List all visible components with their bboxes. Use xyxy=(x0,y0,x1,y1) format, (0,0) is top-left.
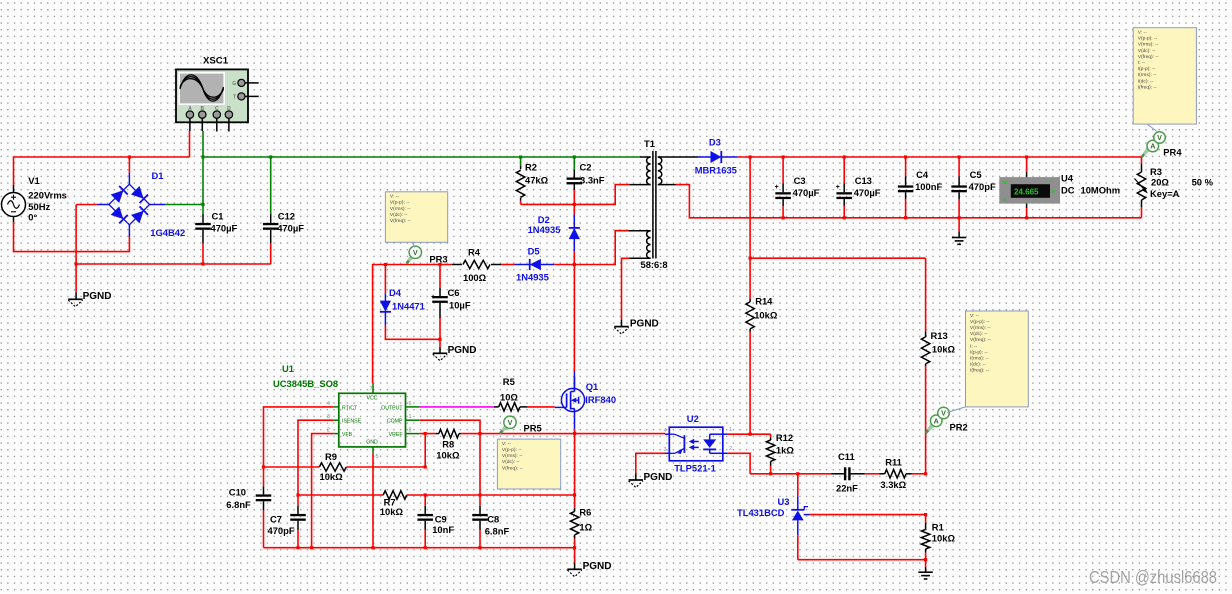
svg-text:PGND: PGND xyxy=(644,472,673,483)
svg-text:3.3nF: 3.3nF xyxy=(580,175,605,186)
wire left ground bus xyxy=(76,263,271,265)
wire R13 bottom to divider xyxy=(925,366,927,474)
svg-text:100Ω: 100Ω xyxy=(463,272,487,283)
wire R7 rail left xyxy=(298,494,383,496)
svg-text:V(p-p): --: V(p-p): -- xyxy=(502,447,522,453)
svg-text:V: V xyxy=(1157,133,1162,142)
svg-text:OUTPUT: OUTPUT xyxy=(381,405,403,411)
svg-text:10kΩ: 10kΩ xyxy=(754,310,778,321)
svg-text:PR2: PR2 xyxy=(950,422,968,433)
resistor R1 xyxy=(921,515,955,553)
svg-text:6.8nF: 6.8nF xyxy=(485,526,510,537)
ground PGND at T1 xyxy=(614,326,628,328)
wire C2 bottom xyxy=(573,190,575,204)
svg-text:v: v xyxy=(1051,189,1055,196)
svg-text:C8: C8 xyxy=(487,513,499,524)
svg-text:+: + xyxy=(775,184,779,191)
svg-text:10kΩ: 10kΩ xyxy=(380,506,404,517)
wire aux bottom to PGND xyxy=(622,258,630,319)
svg-text:V(rms): --: V(rms): -- xyxy=(970,325,991,331)
junction drain node xyxy=(573,263,576,266)
wire R6 bottom xyxy=(574,539,576,563)
svg-text:22nF: 22nF xyxy=(836,482,858,493)
svg-text:C2: C2 xyxy=(580,162,592,173)
svg-text:1N4935: 1N4935 xyxy=(528,224,561,235)
junction green bus at C12 xyxy=(269,155,272,158)
wire C9 bottom xyxy=(424,530,426,548)
svg-text:3.3kΩ: 3.3kΩ xyxy=(880,479,906,490)
svg-text:4: 4 xyxy=(327,401,330,407)
wire C13 bottom xyxy=(843,206,845,218)
svg-text:V: V xyxy=(413,248,418,257)
svg-text:V(rms): --: V(rms): -- xyxy=(502,453,523,459)
wire primary return xyxy=(574,185,629,205)
measurement box PR4 xyxy=(1133,28,1196,124)
wire V1 top to bus xyxy=(14,157,190,185)
svg-text:I(freq): --: I(freq): -- xyxy=(1138,84,1157,90)
wire U3 anode xyxy=(797,535,799,560)
svg-text:10µF: 10µF xyxy=(449,300,471,311)
svg-text:10Ω: 10Ω xyxy=(500,391,518,402)
measurement box PR5 xyxy=(497,439,560,489)
svg-text:20Ω: 20Ω xyxy=(1151,177,1169,188)
wire R7 rail right xyxy=(407,494,575,496)
probe PR3 xyxy=(406,246,448,264)
wire C5 node to earth xyxy=(958,218,960,232)
wire pin2 VFB xyxy=(312,434,334,548)
junction VCC rail at C6 xyxy=(438,263,441,266)
svg-text:D1: D1 xyxy=(152,170,164,181)
junction bottom bus xyxy=(310,546,313,549)
wire pin8 VREF xyxy=(420,433,436,435)
svg-text:U4: U4 xyxy=(1061,173,1074,184)
wire R9 rail right xyxy=(346,466,425,468)
wire U2 pin3 to PGND xyxy=(636,453,665,473)
junction C2 node xyxy=(573,203,576,206)
svg-text:V(rms): --: V(rms): -- xyxy=(390,206,411,212)
wire drain xyxy=(573,265,575,372)
svg-text:V(freq): --: V(freq): -- xyxy=(502,465,523,471)
transformer T1 xyxy=(628,138,678,270)
svg-text:R5: R5 xyxy=(503,376,515,387)
svg-text:1Ω: 1Ω xyxy=(579,522,592,533)
bridge rectifier D1 xyxy=(97,170,185,238)
svg-text:R8: R8 xyxy=(442,438,454,449)
wire C12 bottom xyxy=(270,244,272,264)
junction output ground bus xyxy=(843,216,846,219)
svg-text:V(freq): --: V(freq): -- xyxy=(390,218,411,224)
junction output ground bus xyxy=(782,216,785,219)
junction R9 left xyxy=(262,465,265,468)
capacitor C4 xyxy=(898,157,943,199)
svg-text:V: V xyxy=(508,418,513,427)
wire V1 bottom to bridge bottom xyxy=(14,222,130,252)
AC source V1 xyxy=(2,175,67,223)
junction output bus xyxy=(782,155,785,158)
svg-text:PGND: PGND xyxy=(630,318,659,329)
capacitor C9 xyxy=(417,495,454,535)
svg-text:C12: C12 xyxy=(278,211,295,222)
wire anode rail xyxy=(798,559,926,561)
junction bottom bus xyxy=(478,546,481,549)
svg-text:24.665: 24.665 xyxy=(1014,188,1039,197)
shunt regulator U3 TL431BCD xyxy=(737,474,810,535)
junction output ground bus xyxy=(1025,216,1028,219)
svg-text:V: --: V: -- xyxy=(390,194,399,200)
junction green vertical at bridge line xyxy=(201,203,204,206)
capacitor C8 xyxy=(472,495,509,537)
junction output ground bus xyxy=(904,216,907,219)
svg-text:58:6:8: 58:6:8 xyxy=(641,259,668,270)
svg-text:1N4471: 1N4471 xyxy=(392,301,425,312)
wire C12 drop xyxy=(270,157,272,214)
svg-text:COMP: COMP xyxy=(387,419,403,425)
wire bridge left to PGND xyxy=(76,204,97,206)
capacitor C13 xyxy=(836,157,881,206)
svg-text:DC: DC xyxy=(1061,184,1075,195)
wire C7 bottom xyxy=(297,530,299,548)
junction anode rail xyxy=(924,558,927,561)
svg-text:V: --: V: -- xyxy=(502,441,511,447)
svg-text:D5: D5 xyxy=(528,246,540,257)
svg-text:1kΩ: 1kΩ xyxy=(776,444,794,455)
svg-text:XSC1: XSC1 xyxy=(203,56,229,67)
wire C3 bottom xyxy=(782,206,784,218)
svg-text:TL431BCD: TL431BCD xyxy=(737,507,785,518)
junction output bus xyxy=(749,155,752,158)
capacitor C1 xyxy=(195,211,237,244)
junction PR2 column at feedback xyxy=(924,472,927,475)
junction COMP at VREF line xyxy=(478,432,481,435)
svg-text:C10: C10 xyxy=(229,487,246,498)
capacitor C6 xyxy=(431,265,471,319)
IC U1 UC3845B xyxy=(273,363,420,460)
svg-text:6.8nF: 6.8nF xyxy=(226,499,251,510)
junction left bus at C1 xyxy=(201,262,204,265)
multimeter U4 xyxy=(999,157,1120,208)
diode D5 xyxy=(515,246,555,283)
wire pin1 node to R12 xyxy=(750,433,771,435)
wire R9 rail left xyxy=(264,466,320,468)
svg-text:C5: C5 xyxy=(970,169,982,180)
junction R7 at C9 xyxy=(424,493,427,496)
svg-text:V(rms): --: V(rms): -- xyxy=(1138,42,1159,48)
svg-text:I: --: I: -- xyxy=(1138,60,1146,66)
svg-text:10kΩ: 10kΩ xyxy=(932,344,956,355)
ground PGND at R6 xyxy=(567,568,581,570)
junction R14 node xyxy=(749,257,752,260)
svg-text:7: 7 xyxy=(370,386,373,392)
wire bridge right to C1 node xyxy=(165,204,203,206)
svg-text:470pF: 470pF xyxy=(268,525,295,536)
svg-text:C6: C6 xyxy=(448,287,460,298)
junction bottom bus xyxy=(424,546,427,549)
svg-text:V(p-p): --: V(p-p): -- xyxy=(1138,36,1158,42)
capacitor C2 xyxy=(567,157,605,190)
svg-text:R2: R2 xyxy=(525,162,537,173)
junction source node xyxy=(573,493,576,496)
capacitor C10 xyxy=(226,467,271,510)
potentiometer R3 xyxy=(1135,157,1214,207)
wire pin4 RT/CT xyxy=(264,407,334,467)
svg-text:C3: C3 xyxy=(794,175,806,186)
wire R12 bottom xyxy=(770,466,772,474)
wire output bus xyxy=(738,156,1142,158)
svg-text:470µF: 470µF xyxy=(211,223,238,234)
wire D2 bottom xyxy=(573,251,575,265)
wire drain node to aux top xyxy=(574,231,628,265)
svg-text:Key=A: Key=A xyxy=(1150,188,1180,199)
resistor R7 xyxy=(380,491,407,517)
svg-text:0°: 0° xyxy=(28,212,37,223)
svg-text:R3: R3 xyxy=(1150,166,1162,177)
svg-text:I(dc): --: I(dc): -- xyxy=(1138,78,1154,84)
resistor R5 xyxy=(494,376,527,411)
svg-text:VREF: VREF xyxy=(389,432,403,438)
wire VREF to R9 drop xyxy=(424,434,426,467)
svg-text:U1: U1 xyxy=(282,363,294,374)
svg-text:V(freq): --: V(freq): -- xyxy=(970,337,991,343)
svg-text:PR4: PR4 xyxy=(1163,146,1182,157)
probe PR4 xyxy=(1141,132,1182,158)
wire C1 bottom xyxy=(202,244,204,264)
svg-text:I(rms): --: I(rms): -- xyxy=(1138,72,1157,78)
wire R11 to PR2 column xyxy=(912,473,926,475)
wire U4 bottom xyxy=(1026,208,1028,218)
svg-text:1: 1 xyxy=(409,414,412,420)
svg-text:V(freq): --: V(freq): -- xyxy=(1138,54,1159,60)
capacitor C7 xyxy=(268,495,306,536)
svg-text:R9: R9 xyxy=(325,451,337,462)
svg-text:R1: R1 xyxy=(932,522,944,533)
junction output bus xyxy=(1025,155,1028,158)
junction top bus at bridge xyxy=(128,155,131,158)
junction VREF at R9 drop xyxy=(424,432,427,435)
svg-text:RT/CT: RT/CT xyxy=(342,405,358,411)
svg-text:R13: R13 xyxy=(931,330,948,341)
svg-text:6: 6 xyxy=(409,401,412,407)
svg-text:R11: R11 xyxy=(885,457,902,468)
svg-text:C1: C1 xyxy=(212,211,224,222)
wire source xyxy=(574,412,576,429)
svg-text:R14: R14 xyxy=(755,296,773,307)
svg-text:V(dc): --: V(dc): -- xyxy=(502,459,520,465)
wire VREF line to U2 xyxy=(461,433,665,435)
probe PR5 xyxy=(499,416,541,434)
svg-text:2: 2 xyxy=(327,428,330,434)
diode D3 xyxy=(678,137,738,176)
svg-text:A: A xyxy=(1150,142,1155,151)
svg-text:I(freq): --: I(freq): -- xyxy=(970,368,989,374)
svg-text:470µF: 470µF xyxy=(277,223,304,234)
wire scope B vertical xyxy=(202,131,204,214)
svg-text:PR3: PR3 xyxy=(429,253,447,264)
wire scope A drop xyxy=(189,131,191,157)
svg-text:10MOhm: 10MOhm xyxy=(1081,184,1121,195)
junction C6 ground node xyxy=(438,338,441,341)
svg-text:I(p-p): --: I(p-p): -- xyxy=(970,349,988,355)
svg-text:C11: C11 xyxy=(838,451,855,462)
svg-text:3: 3 xyxy=(327,414,330,420)
wire C8 bottom xyxy=(479,530,481,548)
svg-text:5: 5 xyxy=(376,454,379,460)
wire pin5 GND xyxy=(372,454,374,548)
svg-text:V(p-p): --: V(p-p): -- xyxy=(390,200,410,206)
junction output bus xyxy=(904,155,907,158)
svg-text:CSDN @zhusl6688: CSDN @zhusl6688 xyxy=(1089,567,1217,587)
svg-text:V1: V1 xyxy=(28,175,39,186)
optocoupler U2 TLP521-1 xyxy=(664,413,733,474)
wire C5 bottom xyxy=(958,199,960,217)
svg-text:V(p-p): --: V(p-p): -- xyxy=(970,319,990,325)
junction green bus at scope B xyxy=(201,155,204,158)
capacitor C12 xyxy=(263,211,304,244)
svg-text:V: --: V: -- xyxy=(1138,30,1147,36)
svg-text:C4: C4 xyxy=(916,169,929,180)
wire green bus to transformer xyxy=(203,156,640,158)
junction left bus at PGND drop xyxy=(75,262,78,265)
wire R1 bottom xyxy=(925,553,927,567)
resistor R9 xyxy=(319,451,346,482)
junction VCC rail at D4 xyxy=(384,263,387,266)
wire C11 to R11 xyxy=(865,473,880,475)
wire pin6 OUTPUT magenta xyxy=(420,406,495,408)
zener diode D4 xyxy=(380,265,425,326)
svg-text:U2: U2 xyxy=(687,413,699,424)
junction green bus at R2 xyxy=(519,155,522,158)
svg-text:V(dc): --: V(dc): -- xyxy=(970,331,988,337)
svg-text:470pF: 470pF xyxy=(969,181,996,192)
resistor R6 xyxy=(570,495,592,539)
ground PGND at U2 xyxy=(629,479,643,481)
svg-text:V(dc): --: V(dc): -- xyxy=(1138,48,1156,54)
junction R6 at bus xyxy=(573,546,576,549)
resistor R8 xyxy=(436,429,461,460)
ground earth at C5 xyxy=(952,237,966,239)
svg-text:1: 1 xyxy=(729,427,732,433)
svg-text:C9: C9 xyxy=(435,513,447,524)
junction R7 left xyxy=(296,493,299,496)
svg-text:T: T xyxy=(233,94,236,100)
svg-text:R4: R4 xyxy=(468,247,481,258)
svg-text:I(rms): --: I(rms): -- xyxy=(970,356,989,362)
svg-text:C7: C7 xyxy=(270,513,282,524)
svg-text:ISENSE: ISENSE xyxy=(342,419,362,425)
wire D4 bottom xyxy=(385,325,440,339)
MOSFET Q1 xyxy=(555,377,616,412)
svg-text:V(dc): --: V(dc): -- xyxy=(390,212,408,218)
wire R14 node to PR2 column xyxy=(750,257,926,259)
svg-text:UC3845B_SO8: UC3845B_SO8 xyxy=(273,378,338,389)
oscilloscope XSC1 xyxy=(176,56,259,132)
svg-text:10kΩ: 10kΩ xyxy=(436,449,460,460)
wire R5 to gate xyxy=(527,406,554,408)
junction R7 at C8 xyxy=(478,493,481,496)
wire R14 bottom to U2 pin1 xyxy=(749,332,751,434)
wire C6 bottom xyxy=(439,318,441,339)
measurement box PR2 xyxy=(966,311,1029,407)
wire R2 bottom xyxy=(520,201,522,205)
svg-text:1N4935: 1N4935 xyxy=(516,272,549,283)
probe PR2 xyxy=(925,407,968,434)
resistor R4 xyxy=(452,247,501,284)
svg-text:10kΩ: 10kΩ xyxy=(932,533,956,544)
wire bridge top drop xyxy=(128,157,130,173)
capacitor C5 xyxy=(951,157,996,199)
svg-text:G: G xyxy=(232,81,236,87)
svg-text:C13: C13 xyxy=(855,175,872,186)
wire output to R14 node xyxy=(749,157,751,258)
junction feedback at U3 xyxy=(796,472,799,475)
wire R3 bottom xyxy=(1141,207,1143,218)
ground PGND left xyxy=(68,298,82,300)
svg-text:3: 3 xyxy=(664,447,667,453)
svg-text:PGND: PGND xyxy=(583,561,612,572)
svg-text:U3: U3 xyxy=(778,496,790,507)
resistor R11 xyxy=(879,457,911,490)
svg-text:V: V xyxy=(941,409,946,418)
wire VCC rail xyxy=(373,265,452,384)
svg-text:R6: R6 xyxy=(579,506,591,517)
capacitor C11 xyxy=(831,451,865,493)
junction ref at divider xyxy=(924,513,927,516)
svg-text:D4: D4 xyxy=(389,287,402,298)
svg-text:MBR1635: MBR1635 xyxy=(695,165,737,176)
svg-text:10nF: 10nF xyxy=(432,524,454,535)
junction R9 right xyxy=(424,465,427,468)
svg-text:50Hz: 50Hz xyxy=(28,201,50,212)
svg-text:D3: D3 xyxy=(709,137,721,148)
wire pin1 COMP xyxy=(420,420,480,495)
svg-text:470µF: 470µF xyxy=(793,187,820,198)
svg-text:IRF840: IRF840 xyxy=(585,394,616,405)
wire U3 ref xyxy=(810,514,926,516)
svg-text:50 %: 50 % xyxy=(1192,177,1214,188)
wire bottom ground bus xyxy=(264,547,575,549)
svg-text:4: 4 xyxy=(664,428,667,434)
junction U2 pin1 node xyxy=(749,433,752,436)
svg-text:47kΩ: 47kΩ xyxy=(525,175,549,186)
junction VREF line at source xyxy=(573,432,576,435)
wire C4 bottom xyxy=(905,199,907,217)
wire U2 pin1 xyxy=(727,433,750,435)
ground PGND at C6 xyxy=(433,352,447,354)
wire D5 to drain node xyxy=(554,264,574,266)
svg-text:V: --: V: -- xyxy=(970,313,979,319)
svg-text:+: + xyxy=(836,184,840,191)
junction output ground bus xyxy=(958,216,961,219)
junction bottom bus xyxy=(371,546,374,549)
svg-text:1G4B42: 1G4B42 xyxy=(150,227,185,238)
svg-text:TLP521-1: TLP521-1 xyxy=(674,463,716,474)
wire C10 bottom xyxy=(263,510,265,547)
resistor R12 xyxy=(766,432,794,466)
junction bottom bus xyxy=(296,546,299,549)
svg-text:220Vrms: 220Vrms xyxy=(28,189,67,200)
svg-text:PR5: PR5 xyxy=(524,423,542,434)
svg-text:R12: R12 xyxy=(776,432,793,443)
svg-text:100nF: 100nF xyxy=(915,181,942,192)
svg-text:10kΩ: 10kΩ xyxy=(320,471,344,482)
wire R4 to D5 xyxy=(501,264,515,266)
diode D2 xyxy=(528,204,580,251)
svg-text:I(dc): --: I(dc): -- xyxy=(970,362,986,368)
svg-text:GND: GND xyxy=(366,440,378,446)
svg-text:PGND: PGND xyxy=(448,345,477,356)
svg-text:VCC: VCC xyxy=(367,396,378,402)
junction output bus xyxy=(958,155,961,158)
svg-text:T1: T1 xyxy=(644,138,655,149)
